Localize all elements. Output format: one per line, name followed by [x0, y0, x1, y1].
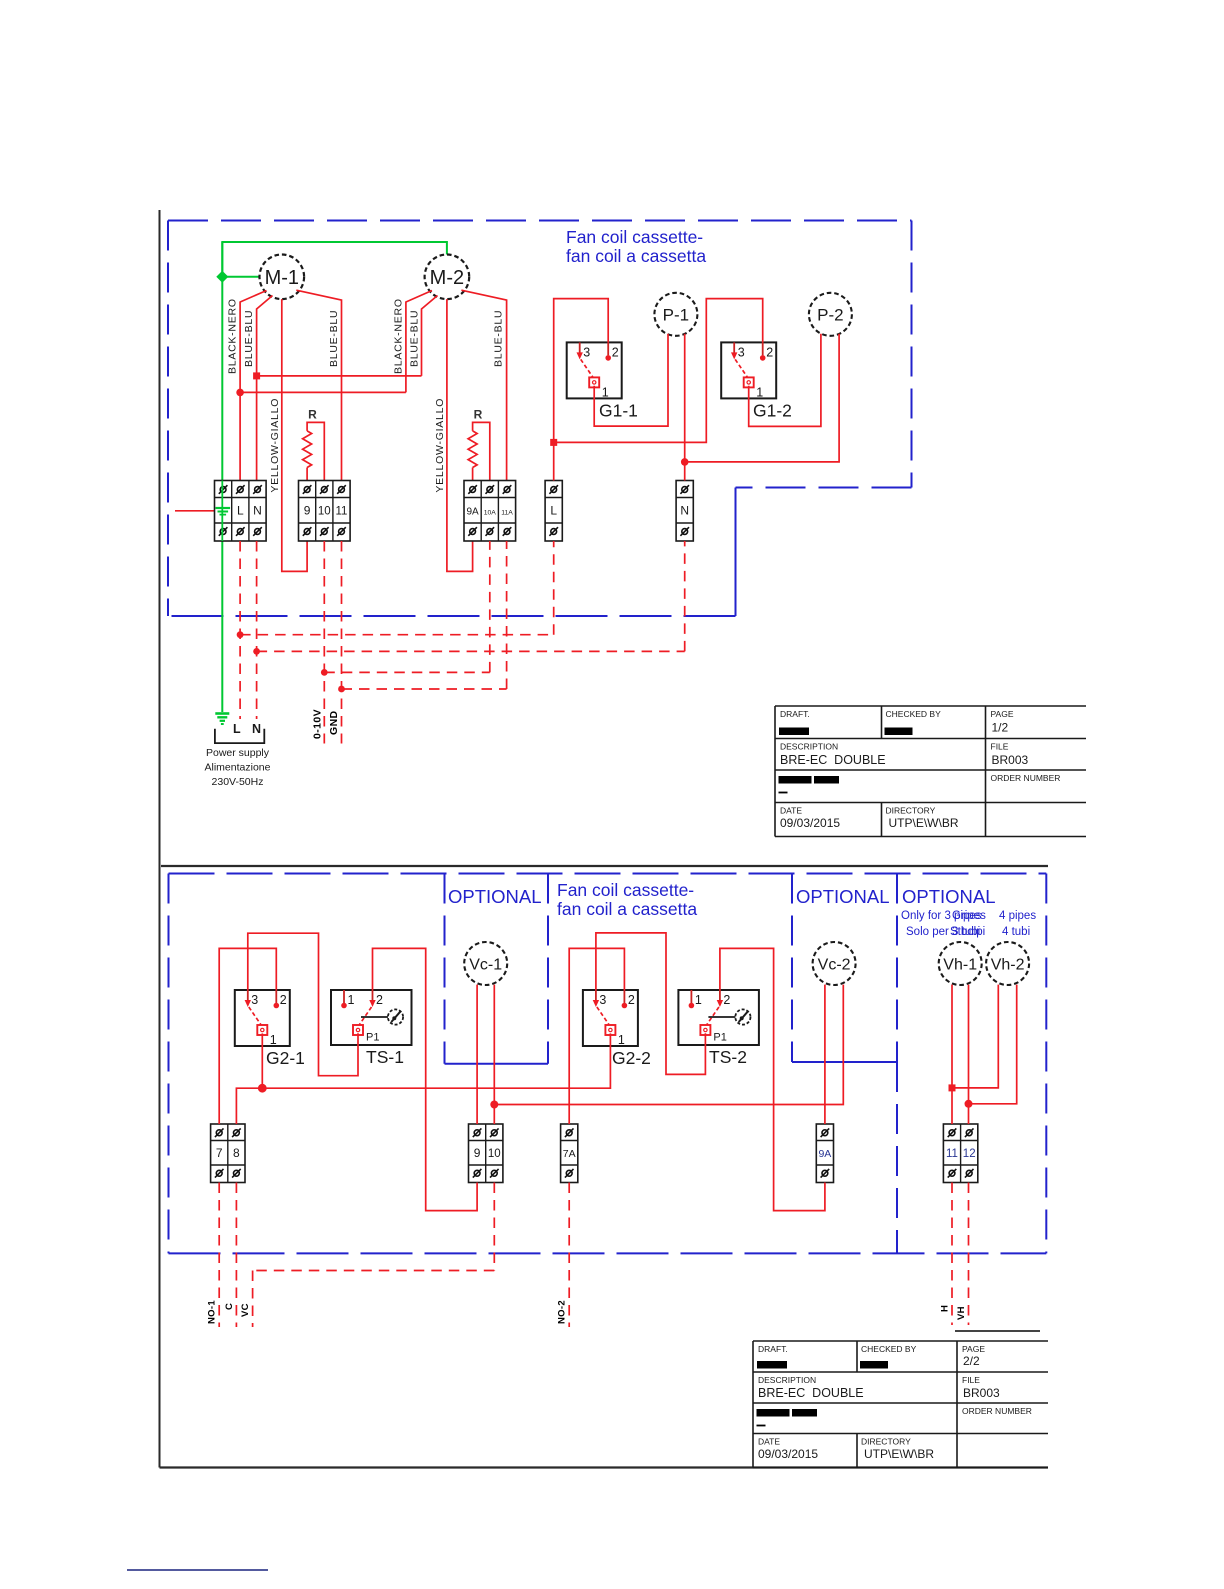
- svg-text:BLUE-BLU: BLUE-BLU: [243, 310, 255, 367]
- svg-text:N: N: [253, 503, 262, 517]
- svg-text:9A: 9A: [818, 1148, 831, 1160]
- green ground wire top run: [222, 242, 447, 277]
- switch arm: [707, 1007, 719, 1025]
- switch G1-2: [721, 342, 792, 420]
- svg-text:DATE: DATE: [780, 806, 802, 816]
- svg-text:3: 3: [583, 345, 590, 359]
- pin 2: [369, 990, 383, 1007]
- svg-text:H: H: [939, 1305, 950, 1312]
- dashed wire N external: [257, 541, 685, 719]
- svg-text:G1-1: G1-1: [599, 400, 638, 420]
- svg-text:P1: P1: [366, 1032, 379, 1044]
- wire Vh-2 left lead: [952, 985, 998, 1088]
- svg-text:N: N: [680, 503, 689, 517]
- svg-text:3: 3: [599, 993, 606, 1007]
- pin 1: [744, 377, 764, 399]
- motor M-2: [425, 254, 470, 299]
- wire Vh-1 left lead to terminal 11: [951, 985, 953, 1124]
- switch arm: [735, 359, 747, 377]
- wire M-2 blue-blu to 11A: [461, 290, 506, 480]
- terminal block 9/10 page2: [469, 1124, 503, 1183]
- switch arm: [249, 1007, 261, 1025]
- svg-text:P1: P1: [713, 1032, 726, 1044]
- svg-text:BRE-EC DOUBLE: BRE-EC DOUBLE: [758, 1386, 864, 1400]
- svg-text:fan coil a cassetta: fan coil a cassetta: [557, 899, 697, 919]
- svg-text:L: L: [550, 503, 557, 517]
- title block page 1: [775, 706, 1086, 837]
- svg-text:BR003: BR003: [992, 753, 1029, 767]
- svg-text:OPTIONAL: OPTIONAL: [796, 886, 890, 907]
- svg-text:1: 1: [618, 1033, 625, 1047]
- wire M-1 yellow-giallo: [282, 299, 307, 571]
- wire G2-2 pin3 to TS-2 P1: [596, 933, 706, 1075]
- valve Vh-1: [939, 942, 982, 985]
- valve Vc-2: [813, 942, 856, 985]
- wire G2-1 pin2 to terminal 7: [219, 948, 276, 1124]
- wire G1-2 pin1 to P-2: [749, 334, 821, 427]
- wire M-1 blue-blu to N: [257, 296, 273, 481]
- dashed wire 0-10V: [324, 541, 490, 744]
- wire M-1 blue-blu to 11: [296, 290, 341, 480]
- svg-text:R: R: [474, 407, 483, 421]
- wire Vc-1 right lead to terminal 10: [493, 985, 495, 1124]
- dashed wire H: [951, 1183, 953, 1326]
- ground symbol at power supply: [215, 714, 229, 725]
- junction dashed 0-10V: [321, 669, 328, 676]
- pin 2: [717, 990, 731, 1007]
- svg-text:DIRECTORY: DIRECTORY: [886, 806, 936, 816]
- label only for pipes (overlapped): [901, 910, 1036, 938]
- svg-text:ORDER NUMBER: ORDER NUMBER: [962, 1406, 1032, 1416]
- black-nero bus wire: [240, 391, 406, 393]
- terminal block 7/8: [211, 1124, 245, 1183]
- svg-text:11: 11: [946, 1148, 958, 1160]
- thermostat dial: [708, 1009, 750, 1024]
- svg-text:1: 1: [756, 385, 763, 399]
- svg-text:PAGE: PAGE: [991, 709, 1014, 719]
- wire M-2 black-nero: [406, 291, 432, 393]
- svg-text:L: L: [233, 722, 241, 736]
- svg-text:11: 11: [336, 505, 348, 517]
- svg-text:09/03/2015: 09/03/2015: [780, 816, 840, 830]
- wire TS-1 pin2 to terminal 9 bottom: [373, 948, 478, 1210]
- svg-text:12: 12: [963, 1148, 976, 1160]
- page-1 title: Fan coil cassette: [566, 227, 706, 266]
- svg-text:2/2: 2/2: [963, 1354, 980, 1368]
- page-1/page-2 sheet left edge: [159, 210, 161, 1468]
- dashed wire L external: [240, 541, 554, 719]
- resistor R (9-10): [303, 407, 325, 480]
- svg-text:3: 3: [251, 993, 258, 1007]
- wire Vh-2 right lead: [969, 985, 1017, 1104]
- terminal block L single: [545, 481, 562, 542]
- wire G1-1 pin1 to P-1: [594, 334, 668, 426]
- svg-text:DIRECTORY: DIRECTORY: [861, 1437, 911, 1447]
- valve Vh-2: [986, 942, 1029, 985]
- stray line above page-2 title block: [955, 1330, 1040, 1332]
- svg-text:7A: 7A: [563, 1148, 576, 1160]
- svg-text:4 pipes: 4 pipes: [999, 910, 1036, 922]
- svg-text:YELLOW-GIALLO: YELLOW-GIALLO: [269, 398, 281, 493]
- wire M-2 yellow-giallo: [447, 299, 473, 571]
- title block page 2: [753, 1341, 1048, 1468]
- svg-text:VH: VH: [956, 1306, 967, 1320]
- svg-text:Vc-2: Vc-2: [818, 957, 851, 974]
- motor M-1: [260, 254, 305, 299]
- optional box Vh: [896, 1062, 898, 1253]
- junction Vh left: [949, 1084, 956, 1091]
- wire M-2 blue-blu: [422, 296, 438, 376]
- wire G2-1 pin1 to bus: [261, 1033, 263, 1088]
- wire L net to G1-1 pin2: [554, 299, 609, 481]
- svg-text:230V-50Hz: 230V-50Hz: [212, 776, 264, 788]
- svg-text:FILE: FILE: [991, 742, 1009, 752]
- pin 3: [245, 990, 259, 1007]
- svg-text:Fan coil cassette-: Fan coil cassette-: [566, 227, 703, 247]
- svg-text:Gripes: Gripes: [952, 910, 986, 922]
- svg-text:BRE-EC DOUBLE: BRE-EC DOUBLE: [780, 753, 886, 767]
- svg-text:4 tubi: 4 tubi: [1002, 926, 1030, 938]
- junction dashed L: [237, 631, 244, 638]
- svg-text:VC: VC: [240, 1303, 251, 1317]
- svg-text:2: 2: [723, 993, 730, 1007]
- optional box Vc-2: [792, 874, 897, 1063]
- svg-text:2: 2: [376, 993, 383, 1007]
- svg-text:Power supply: Power supply: [206, 747, 270, 759]
- junction Vh right: [965, 1100, 973, 1108]
- svg-text:CHECKED BY: CHECKED BY: [861, 1344, 917, 1354]
- wire L net to G1-2 pin2: [554, 299, 763, 443]
- blue footer underline: [127, 1569, 268, 1571]
- ground clamp overlay in block: [216, 481, 231, 542]
- svg-text:DRAFT.: DRAFT.: [780, 709, 810, 719]
- pin 1: [257, 1025, 277, 1047]
- pin 2: [760, 342, 773, 360]
- junction blue bus: [253, 372, 260, 379]
- switch arm: [581, 359, 593, 377]
- pin 1: [341, 990, 354, 1008]
- svg-text:09/03/2015: 09/03/2015: [758, 1447, 818, 1461]
- junction L net: [550, 439, 557, 446]
- dashed wire VH: [968, 1183, 970, 1326]
- bus wire G2 pin1 common: [236, 1033, 610, 1124]
- svg-text:NO-1: NO-1: [207, 1300, 218, 1324]
- wire Vh-1 right lead to terminal 12: [968, 985, 970, 1124]
- svg-text:L: L: [237, 503, 244, 517]
- dashed wire NO-2: [568, 1183, 570, 1328]
- svg-text:BLACK-NERO: BLACK-NERO: [227, 298, 239, 374]
- svg-text:1: 1: [695, 993, 702, 1007]
- svg-text:OPTIONAL: OPTIONAL: [902, 886, 996, 907]
- svg-text:P-2: P-2: [817, 305, 843, 324]
- svg-text:DESCRIPTION: DESCRIPTION: [780, 742, 838, 752]
- svg-text:2: 2: [280, 993, 287, 1007]
- svg-text:0-10V: 0-10V: [311, 709, 323, 739]
- terminal block 7A: [561, 1124, 578, 1183]
- terminal block N single: [676, 481, 693, 542]
- terminal block ground/L/N: [215, 481, 267, 542]
- svg-text:N: N: [252, 722, 261, 736]
- switch G2-2: [583, 990, 651, 1068]
- junction N net: [681, 458, 689, 466]
- svg-text:1: 1: [602, 385, 609, 399]
- svg-text:GND: GND: [328, 710, 340, 735]
- svg-text:G1-2: G1-2: [753, 400, 792, 420]
- junction dashed GND: [338, 686, 345, 693]
- optional box Vc-1: [445, 874, 549, 1064]
- svg-text:Fan coil cassette-: Fan coil cassette-: [557, 880, 694, 900]
- svg-text:10: 10: [318, 505, 331, 517]
- svg-text:PAGE: PAGE: [962, 1344, 985, 1354]
- wire stub into ground clamp: [175, 510, 215, 512]
- svg-text:10A: 10A: [484, 509, 497, 516]
- pin 1: [589, 377, 609, 399]
- probe P-2: [809, 293, 852, 336]
- power supply bracket: [215, 729, 264, 743]
- power supply text: [205, 747, 271, 788]
- svg-text:CHECKED BY: CHECKED BY: [886, 709, 942, 719]
- pin 1: [689, 990, 702, 1008]
- svg-text:UTP\E\W\BR: UTP\E\W\BR: [864, 1447, 934, 1461]
- wire G2-1 pin3 to TS-1 P1: [248, 933, 358, 1075]
- junction Vc bus: [490, 1101, 498, 1109]
- page-2 sheet bottom edge: [160, 1466, 1049, 1468]
- svg-text:fan coil a cassetta: fan coil a cassetta: [566, 246, 706, 266]
- resistor R (9A-10A): [468, 407, 490, 480]
- svg-text:DATE: DATE: [758, 1437, 780, 1447]
- pin 1: [605, 1025, 625, 1047]
- pin 3: [593, 990, 607, 1007]
- probe P-1: [654, 293, 697, 336]
- blue-blu bus wire: [257, 375, 422, 377]
- wire G2-2 pin2 to terminal 7A: [569, 948, 624, 1124]
- svg-text:OPTIONAL: OPTIONAL: [448, 886, 542, 907]
- svg-text:Vh-2: Vh-2: [991, 957, 1025, 974]
- svg-text:BLUE-BLU: BLUE-BLU: [493, 310, 505, 367]
- svg-text:FILE: FILE: [962, 1375, 980, 1385]
- page-2 title: Fan coil cassette: [557, 880, 697, 919]
- page-2 blue dashed border: [169, 874, 1047, 1254]
- svg-text:7: 7: [216, 1146, 223, 1160]
- svg-text:G2-1: G2-1: [266, 1048, 305, 1068]
- svg-text:NO-2: NO-2: [557, 1300, 568, 1324]
- junction black bus: [236, 389, 244, 397]
- thermostat TS-2: [678, 990, 759, 1067]
- terminal block 9/10/11: [299, 481, 351, 542]
- page-1 blue dashed border: [168, 221, 912, 617]
- wire N net to P-2 right lead: [685, 334, 839, 462]
- switch arm: [360, 1007, 372, 1025]
- svg-text:9A: 9A: [466, 506, 479, 517]
- svg-text:P-1: P-1: [663, 305, 689, 324]
- bus wire Vc common: [494, 985, 843, 1105]
- svg-text:TS-1: TS-1: [366, 1047, 404, 1067]
- svg-text:Vc-1: Vc-1: [469, 957, 502, 974]
- thermostat TS-1: [331, 990, 412, 1067]
- switch G2-1: [235, 990, 305, 1068]
- valve Vc-1: [464, 942, 507, 985]
- svg-text:DESCRIPTION: DESCRIPTION: [758, 1375, 816, 1385]
- terminal block 9A/10A/11A: [464, 481, 516, 542]
- dashed wire GND: [342, 541, 507, 744]
- svg-text:10: 10: [488, 1148, 501, 1160]
- svg-text:BLUE-BLU: BLUE-BLU: [328, 310, 340, 367]
- svg-text:1/2: 1/2: [992, 721, 1009, 735]
- svg-text:9: 9: [304, 503, 311, 517]
- dashed wire C: [235, 1183, 237, 1328]
- svg-text:TS-2: TS-2: [709, 1047, 747, 1067]
- svg-text:1: 1: [348, 993, 355, 1007]
- terminal P1: [353, 1025, 379, 1044]
- switch arm: [597, 1007, 609, 1025]
- dashed wire NO-1: [218, 1183, 220, 1328]
- svg-text:R: R: [308, 407, 317, 421]
- sheet divider line between page 1 and page 2: [161, 865, 1048, 867]
- svg-text:Vh-1: Vh-1: [943, 957, 977, 974]
- svg-text:1: 1: [270, 1033, 277, 1047]
- svg-text:DRAFT.: DRAFT.: [758, 1344, 788, 1354]
- svg-text:M-2: M-2: [430, 267, 464, 289]
- svg-text:Alimentazione: Alimentazione: [205, 762, 271, 774]
- svg-text:BR003: BR003: [963, 1386, 1000, 1400]
- svg-text:C: C: [224, 1303, 235, 1310]
- wire P-1 right lead / N net: [684, 334, 686, 481]
- terminal P1: [700, 1025, 726, 1044]
- svg-text:BLACK-NERO: BLACK-NERO: [393, 298, 405, 374]
- pin 2: [622, 990, 635, 1008]
- green junction to M-1: [222, 276, 260, 278]
- terminal block 9A page2: [816, 1124, 833, 1183]
- wire Vc-1 left lead to terminal 9: [476, 985, 478, 1124]
- svg-text:9: 9: [474, 1146, 481, 1160]
- terminal block 11/12: [943, 1124, 977, 1183]
- svg-text:G2-2: G2-2: [612, 1048, 651, 1068]
- svg-text:8: 8: [233, 1146, 240, 1160]
- junction dashed N: [253, 648, 260, 655]
- svg-text:2: 2: [612, 345, 619, 359]
- svg-text:M-1: M-1: [265, 267, 299, 289]
- junction G2-1 pin1: [258, 1084, 267, 1093]
- svg-text:UTP\E\W\BR: UTP\E\W\BR: [889, 816, 959, 830]
- ground clamp in terminal block: [216, 481, 231, 542]
- svg-text:3: 3: [738, 345, 745, 359]
- pin 3: [731, 342, 745, 359]
- svg-text:Stbolpi: Stbolpi: [950, 926, 985, 938]
- svg-text:YELLOW-GIALLO: YELLOW-GIALLO: [434, 398, 446, 493]
- svg-text:11A: 11A: [501, 509, 513, 516]
- svg-text:2: 2: [766, 345, 773, 359]
- wire TS-2 pin2 to terminal 9A bottom: [720, 948, 825, 1210]
- pin 3: [577, 342, 591, 359]
- wire Vc-2 left lead to terminal 9A: [824, 985, 826, 1124]
- dashed wire VC: [253, 1183, 495, 1328]
- svg-text:2: 2: [628, 993, 635, 1007]
- wire M-1 black-nero to L: [240, 291, 266, 481]
- svg-text:BLUE-BLU: BLUE-BLU: [408, 310, 420, 367]
- green ground wire vertical drop: [221, 242, 223, 712]
- svg-text:ORDER NUMBER: ORDER NUMBER: [991, 773, 1061, 783]
- switch G1-1: [567, 342, 638, 420]
- pin 2: [605, 342, 618, 360]
- thermostat dial: [361, 1009, 403, 1024]
- pin 2: [274, 990, 287, 1008]
